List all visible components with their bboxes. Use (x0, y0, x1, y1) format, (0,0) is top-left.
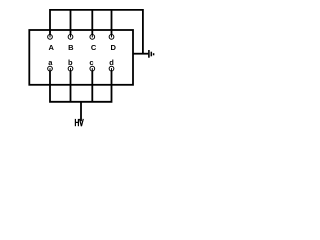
wire to ground (133, 53, 148, 55)
terminal D circle (109, 35, 114, 40)
wire terminal b drop (70, 71, 72, 102)
wire top bus (50, 10, 143, 54)
wire HV lead (80, 102, 82, 121)
svg-text:b: b (68, 58, 73, 67)
svg-text:c: c (89, 58, 93, 67)
terminal a circle (48, 66, 53, 71)
label HV (75, 119, 83, 126)
svg-text:d: d (109, 58, 114, 67)
svg-text:B: B (68, 43, 74, 52)
svg-text:C: C (91, 43, 97, 52)
svg-text:A: A (48, 43, 54, 52)
terminal b circle (68, 66, 73, 71)
terminal C circle (90, 35, 95, 40)
box U1 (terminal block body) (29, 30, 133, 85)
terminal c circle (90, 66, 95, 71)
wire terminal C drop (91, 10, 93, 35)
terminal B circle (68, 35, 73, 40)
terminal d circle (109, 66, 114, 71)
terminal A circle (48, 35, 53, 40)
terminal wire stubs inside circles (50, 34, 112, 72)
wire bottom bus with terminal a and d drops (50, 71, 112, 102)
wire terminal c drop (91, 71, 93, 102)
wire terminal D drop (111, 10, 113, 35)
wire terminal B drop (70, 10, 72, 35)
svg-text:D: D (110, 43, 116, 52)
ground (149, 50, 154, 58)
